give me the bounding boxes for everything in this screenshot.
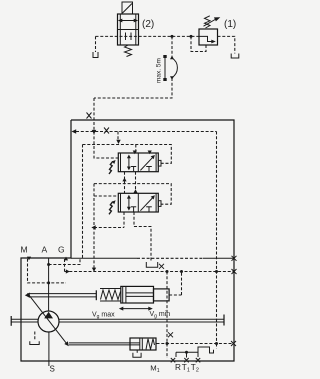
svg-text:(1): (1) [224,19,236,30]
svg-text:S: S [50,365,55,374]
svg-text:max. 5m: max. 5m [156,58,163,83]
svg-text:T1: T1 [182,363,190,374]
svg-text:M: M [21,245,28,255]
svg-text:(2): (2) [142,19,154,30]
svg-text:M1: M1 [150,363,159,374]
svg-text:G: G [58,245,65,255]
svg-text:A: A [42,245,48,255]
svg-text:Vg max: Vg max [92,312,115,321]
svg-text:T2: T2 [191,363,199,374]
svg-text:R: R [175,363,181,372]
